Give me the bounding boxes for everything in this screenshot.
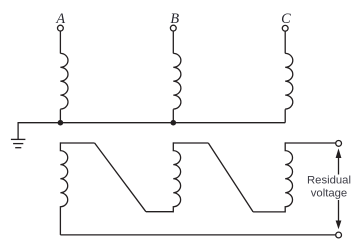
terminal A [58,25,64,31]
wire to secondary B bottom [146,211,173,213]
junction dot at A [58,120,64,126]
inductor primary phase A [60,53,68,109]
wire to secondary C bottom [253,211,285,213]
terminal B [170,25,176,31]
residual voltage arrow [336,148,342,229]
svg-text:B: B [170,11,179,27]
wire coil A to bus [59,109,61,122]
neutral bus wire [18,122,285,124]
wire B terminal to coil [172,31,174,53]
wire secondary B top stub [173,142,208,144]
wire A terminal to coil [59,31,61,53]
junction dot at B [171,120,177,126]
wire coil C to bus [284,109,286,122]
wire secondary C top to output terminal [285,142,336,144]
ground [11,139,26,147]
output terminal bottom [336,232,342,238]
wire C terminal to coil [284,31,286,53]
inductor primary phase C [285,53,293,109]
svg-text:voltage: voltage [311,188,347,200]
bottom rail wire [60,234,335,236]
wire secondary A top stub [60,142,94,144]
svg-text:C: C [281,11,291,27]
inductor secondary phase A [60,142,67,235]
svg-text:Residual: Residual [307,174,351,186]
wire diagonal B to C [208,143,253,212]
wire bus to ground [17,122,19,139]
inductor primary phase B [173,53,181,109]
terminal C [282,25,288,31]
residual voltage label [306,174,352,200]
inductor secondary phase B [173,142,180,212]
wire diagonal A to B [95,143,146,212]
wire coil B to bus [172,109,174,122]
output terminal top [336,141,342,147]
inductor secondary phase C [285,142,292,212]
